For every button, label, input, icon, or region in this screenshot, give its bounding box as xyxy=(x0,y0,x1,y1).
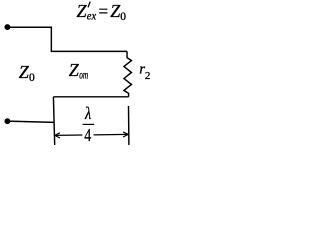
label r2 xyxy=(139,61,150,82)
wire: top lead, step down, Zom section top rail xyxy=(7,27,127,51)
dimension witness line (right) xyxy=(128,106,130,145)
svg-text:om: om xyxy=(79,67,88,81)
terminal dot (bottom-left) xyxy=(4,118,10,124)
wire: bottom rail (Zom section) xyxy=(53,96,128,98)
svg-text:4: 4 xyxy=(84,125,91,145)
dimension witness line (left, continues step wire) xyxy=(53,97,54,145)
label Z'ex = Z0 (input impedance equation) xyxy=(77,1,127,23)
resistor r2 (load) xyxy=(124,51,132,96)
svg-text:2: 2 xyxy=(145,70,151,82)
terminal dot (top-left) xyxy=(4,24,10,30)
svg-text:λ: λ xyxy=(84,103,91,123)
svg-text:0: 0 xyxy=(29,72,35,84)
svg-text:ex: ex xyxy=(87,8,97,22)
svg-text:0: 0 xyxy=(120,11,126,23)
svg-text:Z: Z xyxy=(69,60,80,80)
label Zom (matching section impedance) xyxy=(69,60,89,81)
wire: bottom lead to terminal (slight scan slope) xyxy=(7,121,54,122)
label lambda/4 (quarter wavelength) xyxy=(83,103,95,145)
dimension arrow line with arrowheads xyxy=(55,132,129,138)
label Z0 (left section impedance) xyxy=(19,62,35,84)
